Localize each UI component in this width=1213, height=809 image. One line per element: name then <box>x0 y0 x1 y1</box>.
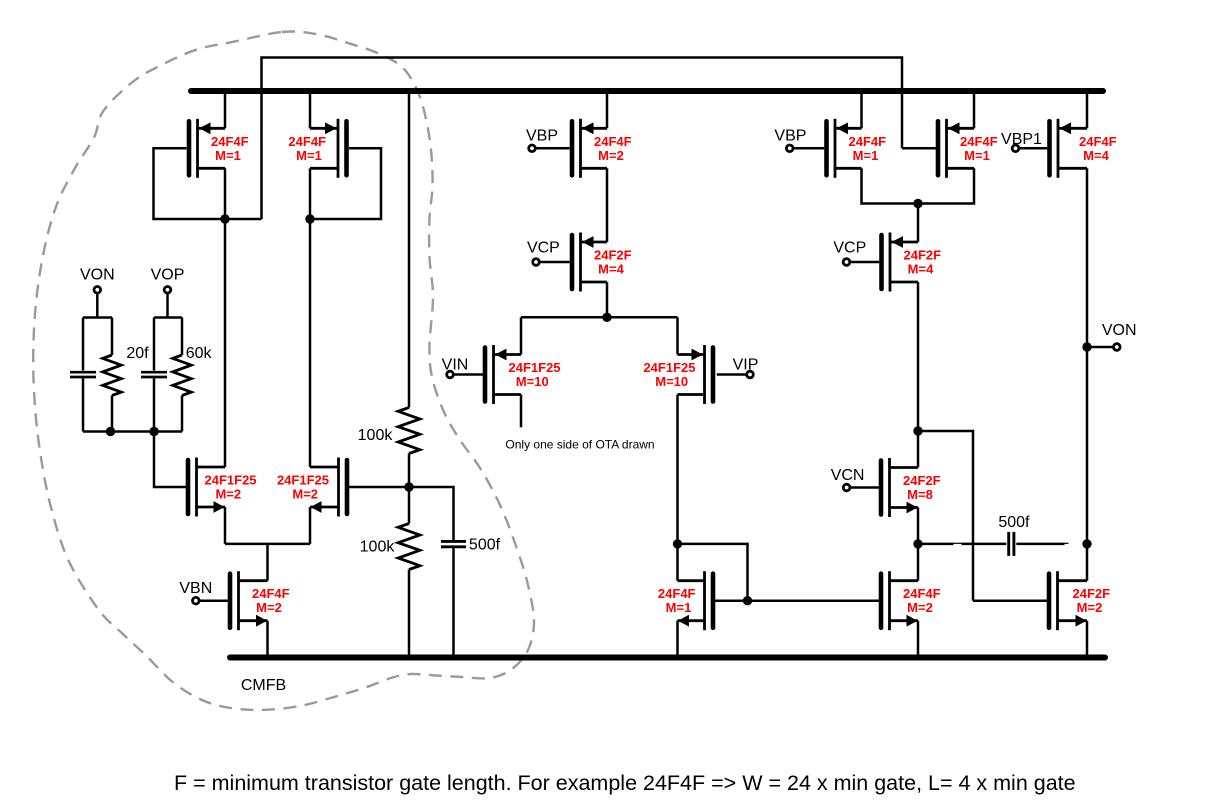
wire node E to M14 drain <box>917 431 920 468</box>
wire CMFB tail down to M9 <box>266 544 269 581</box>
wire M10 drain to VDD <box>860 91 863 128</box>
transistor M9 NMOS tail (24F4F M=2) <box>230 571 290 630</box>
transistor M17 NMOS output (24F2F M=2) <box>1049 571 1110 630</box>
wire node F to C4 (thin tick) <box>954 542 962 544</box>
svg-text:VOP: VOP <box>151 267 185 284</box>
transistor M4 PMOS cascode (24F2F M=4) <box>572 233 632 292</box>
junction node A <box>220 214 229 223</box>
transistor M10 PMOS (24F4F M=1) <box>827 119 887 178</box>
transistor M6 input PMOS (24F1F25 M=10) <box>643 345 713 404</box>
svg-text:M=2: M=2 <box>292 487 318 502</box>
wire M2 gate loop <box>310 148 381 219</box>
wire VIP gate <box>717 373 747 376</box>
wire VOP stub <box>166 293 169 317</box>
svg-text:VIN: VIN <box>442 357 469 374</box>
terminal VOP (right sense input) <box>164 287 171 294</box>
svg-text:500f: 500f <box>998 514 1030 531</box>
wire M6 source down to node C <box>676 395 679 544</box>
junction divider node <box>404 482 413 491</box>
junction node F <box>913 539 922 548</box>
wire M3 source to M4 drain <box>606 168 609 242</box>
wire VOP cap branch top <box>153 318 156 371</box>
svg-text:24F4F: 24F4F <box>1079 134 1117 149</box>
terminal VBN <box>193 597 200 604</box>
svg-text:24F2F: 24F2F <box>903 473 941 488</box>
svg-text:M=4: M=4 <box>908 262 934 277</box>
junction M15 gate node <box>743 596 752 605</box>
wire tail to M5 drain <box>520 317 523 354</box>
svg-text:VBN: VBN <box>179 580 212 597</box>
wire VCP right gate <box>850 261 879 264</box>
resistor R2 (60k) <box>173 355 192 396</box>
wire M15-M16 gate line <box>715 599 880 602</box>
wire node F to M16 drain <box>917 544 920 581</box>
wire VBP right gate <box>793 147 824 150</box>
junction RC bottom left <box>106 427 115 436</box>
svg-text:24F1F25: 24F1F25 <box>277 473 329 488</box>
wire VCP gate <box>539 261 569 264</box>
wire VOP cap branch bottom <box>153 379 156 432</box>
wire VON output stub <box>1087 346 1114 349</box>
wire M5 source stub (open) <box>520 395 523 428</box>
transistor M3 PMOS (24F4F M=2) <box>572 119 632 178</box>
junction output/C4 node <box>1082 539 1091 548</box>
wire M15 source to VSS <box>676 621 679 658</box>
junction input pair tail <box>602 313 611 322</box>
wire M2 source down to node B <box>309 168 312 219</box>
wire divider node down <box>408 487 411 524</box>
svg-text:20f: 20f <box>126 345 149 362</box>
svg-text:VIP: VIP <box>733 357 759 374</box>
wire M3 drain to VDD <box>606 91 609 128</box>
wire node A down to M7 drain <box>224 219 227 467</box>
transistor M5 input PMOS (24F1F25 M=10) <box>485 345 561 404</box>
wire M17 gate segment <box>973 599 1047 602</box>
wire VBP1 gate <box>1019 147 1047 150</box>
wire divider top from VDD <box>408 91 411 408</box>
svg-text:VBP: VBP <box>774 128 806 145</box>
svg-text:24F4F: 24F4F <box>849 134 887 149</box>
svg-text:24F2F: 24F2F <box>1073 586 1111 601</box>
wire M15 gate loop <box>678 544 748 601</box>
svg-text:M=2: M=2 <box>1077 600 1103 615</box>
capacitor C3 (500f) plates <box>441 540 466 543</box>
wire M7 source to tail <box>224 507 227 544</box>
svg-text:24F4F: 24F4F <box>252 586 290 601</box>
svg-text:VON: VON <box>80 267 115 284</box>
svg-text:24F1F25: 24F1F25 <box>509 360 561 375</box>
svg-text:24F4F: 24F4F <box>211 134 249 149</box>
svg-text:VCP: VCP <box>833 240 866 257</box>
wire tail to M6 drain <box>676 317 679 354</box>
wire divider node to C3 <box>409 487 454 540</box>
svg-text:24F4F: 24F4F <box>658 586 696 601</box>
capacitor C4 (500f) plates <box>1007 532 1010 556</box>
transistor M1 PMOS diode (24F4F M=1) <box>189 119 249 178</box>
junction RC bottom right / sense node <box>149 427 158 436</box>
resistor R3 (100k upper) <box>398 408 420 454</box>
wire VBP gate <box>535 147 569 150</box>
wire M10 source to node D <box>862 168 919 203</box>
svg-text:VBP: VBP <box>526 128 558 145</box>
svg-text:M=4: M=4 <box>598 262 624 277</box>
svg-text:M=1: M=1 <box>296 148 322 163</box>
transistor M7 CMFB NMOS (24F1F25 M=2) <box>188 458 257 517</box>
svg-text:M=8: M=8 <box>907 487 933 502</box>
svg-text:M=10: M=10 <box>655 374 688 389</box>
wire VOP res branch top <box>181 318 184 356</box>
transistor M11 PMOS (24F4F M=1) <box>938 119 998 178</box>
wire M13 source down output line <box>1086 168 1089 580</box>
terminal VBP (right) <box>786 145 793 152</box>
svg-text:CMFB: CMFB <box>241 677 286 694</box>
wire sense node down to M7 gate <box>154 432 187 488</box>
wire M4 source to tail node <box>606 282 609 317</box>
wire VON res branch bottom <box>111 396 114 432</box>
transistor M14 NMOS cascode VCN (24F2F M=8) <box>881 458 941 517</box>
wire node F to C4 (segment) <box>918 543 954 546</box>
wire node B down to M8 drain <box>309 219 312 467</box>
wire M1 gate loop <box>154 148 226 219</box>
terminal VBP (middle) <box>529 145 536 152</box>
wire right mirror gate segment <box>902 147 937 150</box>
svg-text:M=1: M=1 <box>666 600 692 615</box>
terminal VIP <box>747 371 754 378</box>
wire tail bar <box>521 316 678 319</box>
transistor M12 PMOS cascode (24F2F M=4) <box>882 233 942 292</box>
svg-text:F = minimum transistor gate le: F = minimum transistor gate length. For … <box>174 771 1076 795</box>
junction VON output node <box>1082 342 1091 351</box>
svg-text:M=1: M=1 <box>215 148 241 163</box>
wire node C to M15 drain <box>676 544 679 581</box>
wire M2 drain to VDD <box>309 91 312 128</box>
svg-text:24F4F: 24F4F <box>960 134 998 149</box>
junction node C <box>673 539 682 548</box>
wire VON res branch top <box>111 318 114 356</box>
wire RC common bottom <box>83 430 182 433</box>
wire VON cap branch bottom <box>82 379 85 432</box>
wire VON cap branch top <box>82 318 85 371</box>
svg-text:100k: 100k <box>358 427 394 444</box>
wire M17 source to VSS <box>1086 621 1089 658</box>
wire node A to right mirror gate (over the top) <box>262 58 903 220</box>
terminal VBP1 <box>1012 145 1019 152</box>
svg-text:Only one side of OTA drawn: Only one side of OTA drawn <box>505 438 654 452</box>
svg-text:100k: 100k <box>360 539 396 556</box>
wire VCN gate <box>850 486 879 489</box>
transistor M8 CMFB NMOS (24F1F25 M=2) <box>277 458 347 517</box>
svg-text:500f: 500f <box>469 537 501 554</box>
wire VOP RC top split <box>154 316 182 319</box>
terminal VON (left sense input) <box>94 287 101 294</box>
svg-text:VBP1: VBP1 <box>1001 131 1042 148</box>
junction node B <box>305 214 314 223</box>
wire C3 to VSS <box>452 548 455 657</box>
svg-text:VON: VON <box>1102 322 1137 339</box>
junction node D <box>913 199 922 208</box>
capacitor C2 (20f) plates <box>141 371 167 374</box>
svg-text:24F1F25: 24F1F25 <box>643 360 695 375</box>
transistor M15 NMOS diode (24F4F M=1) <box>658 571 713 630</box>
svg-text:M=1: M=1 <box>964 148 990 163</box>
svg-text:24F2F: 24F2F <box>594 248 632 263</box>
terminal VCP (middle) <box>533 259 540 266</box>
svg-text:M=2: M=2 <box>907 600 933 615</box>
capacitor C1 (20f) plates <box>70 371 96 374</box>
wire node E to M17 gate <box>918 431 973 601</box>
resistor R1 (60k) <box>103 355 122 396</box>
CMFB block dashed boundary <box>33 32 534 711</box>
svg-text:M=2: M=2 <box>598 148 624 163</box>
svg-text:M=2: M=2 <box>215 487 241 502</box>
terminal VCN <box>843 484 850 491</box>
wire M13 drain to VDD <box>1086 91 1089 128</box>
svg-text:M=1: M=1 <box>853 148 879 163</box>
wire M16 source to VSS <box>917 621 920 658</box>
svg-text:M=10: M=10 <box>516 374 549 389</box>
wire M14 source to node F <box>917 508 920 544</box>
svg-text:VCN: VCN <box>831 467 865 484</box>
svg-text:M=4: M=4 <box>1083 148 1109 163</box>
wire M8 gate to divider node <box>349 486 409 489</box>
svg-text:24F4F: 24F4F <box>903 586 941 601</box>
terminal VON (output) <box>1114 344 1121 351</box>
wire node D down to M12 <box>917 204 920 243</box>
wire node A extension <box>225 218 262 221</box>
wire M12 source down to node E <box>917 282 920 431</box>
wire VON RC top split <box>83 316 112 319</box>
wire M1 drain to VDD <box>224 91 227 128</box>
wire C4 to output line (segment) <box>1016 543 1064 546</box>
wire M11 drain to VDD <box>973 91 976 128</box>
VSS rail (bottom supply) <box>230 655 1105 661</box>
wire VON stub <box>96 293 99 317</box>
svg-text:24F2F: 24F2F <box>904 248 942 263</box>
wire VBN gate <box>199 599 228 602</box>
wire CMFB tail bar <box>225 543 310 546</box>
wire C4 to output line (thin tick) <box>1065 542 1069 544</box>
wire VIN gate <box>453 373 483 376</box>
transistor M13 PMOS output (24F4F M=4) <box>1050 119 1117 178</box>
wire VOP res branch bottom <box>181 396 184 432</box>
wire M8 source to tail <box>309 507 312 544</box>
wire R3 to divider node <box>408 454 411 488</box>
resistor R4 (100k lower) <box>398 524 420 570</box>
svg-text:60k: 60k <box>186 345 213 362</box>
wire M1 source down to node A <box>224 168 227 219</box>
terminal VIN <box>447 371 454 378</box>
svg-text:24F4F: 24F4F <box>594 134 632 149</box>
svg-text:24F1F25: 24F1F25 <box>205 473 257 488</box>
transistor M16 NMOS mirror (24F4F M=2) <box>881 571 941 630</box>
svg-text:VCP: VCP <box>527 240 560 257</box>
wire R4 to VSS <box>408 570 411 658</box>
terminal VCP (right) <box>843 259 850 266</box>
svg-text:M=2: M=2 <box>256 600 282 615</box>
wire M11 source to node D <box>918 168 974 203</box>
svg-text:24F4F: 24F4F <box>288 134 326 149</box>
wire M9 source to VSS <box>266 621 269 658</box>
junction node E <box>913 426 922 435</box>
transistor M2 PMOS diode (24F4F M=1) <box>288 119 346 178</box>
VDD rail (top supply) <box>191 88 1103 94</box>
wire node F to C4 (segment 2) <box>962 543 1007 546</box>
